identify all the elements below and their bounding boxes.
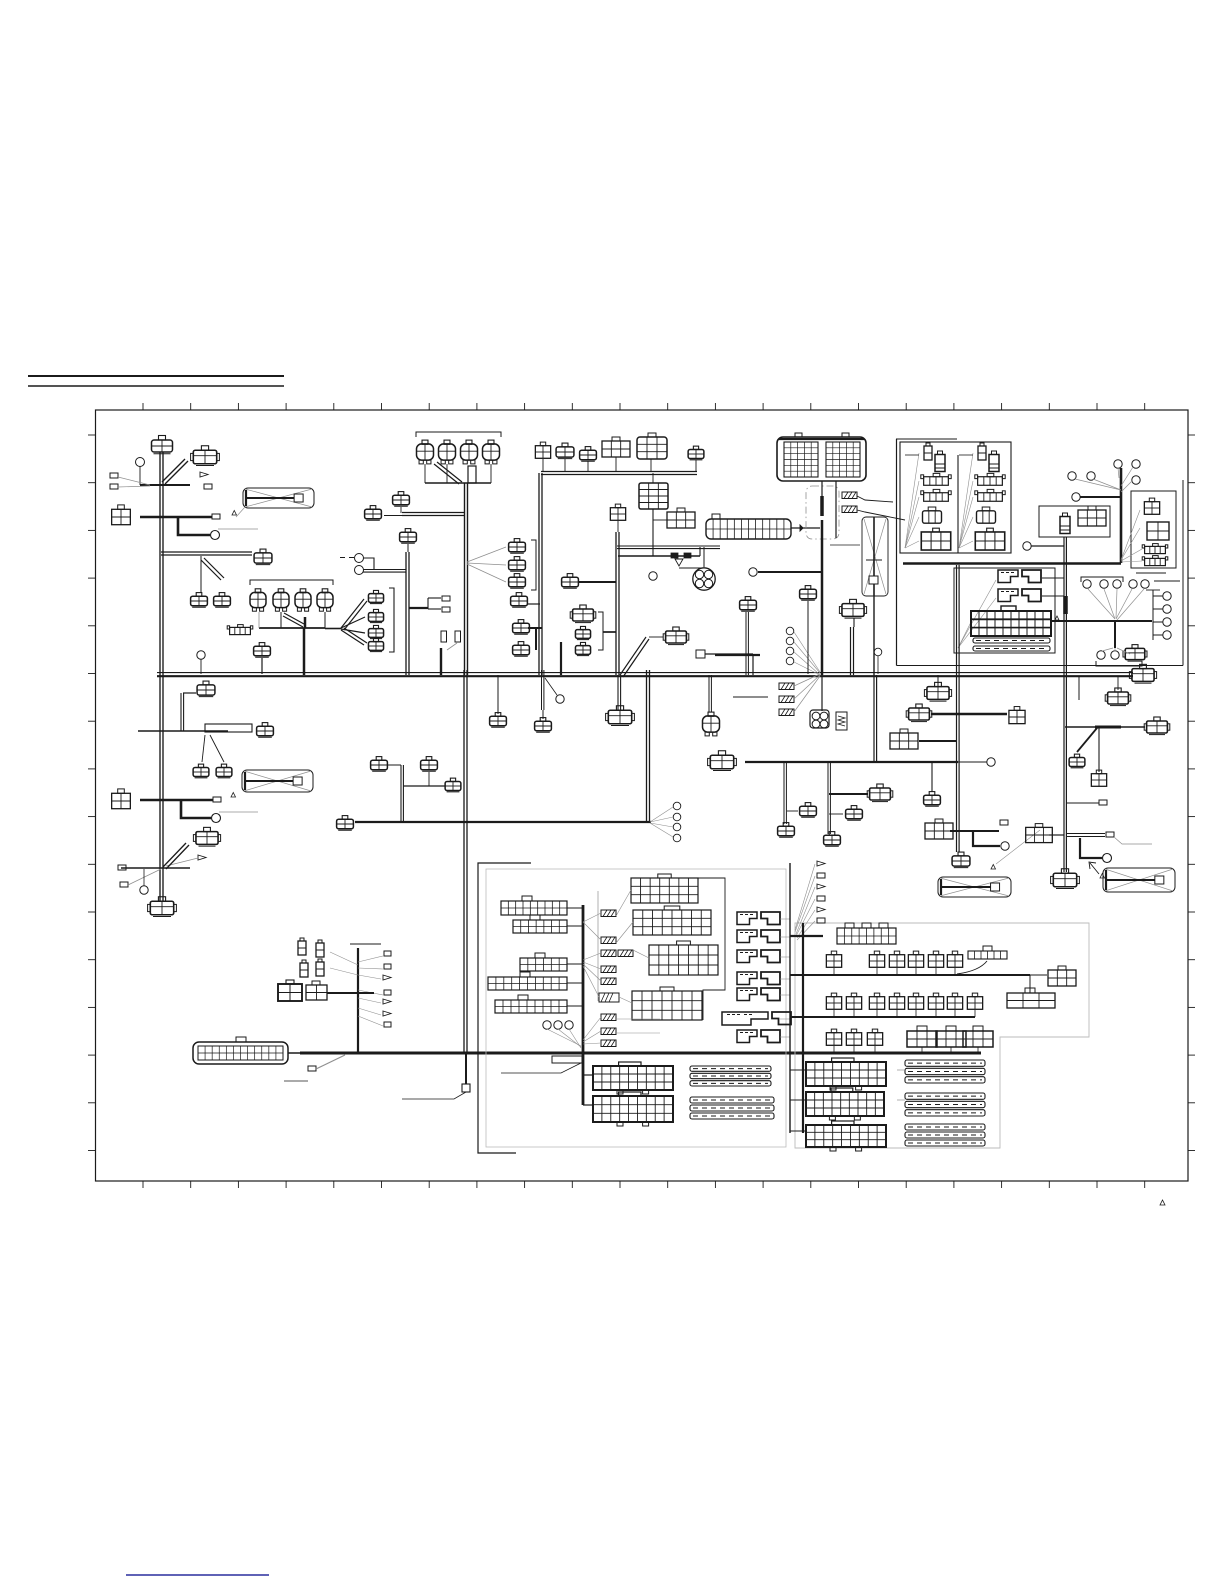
terminal rect PR6 [817,918,825,923]
fan diagonal 3 [341,629,365,633]
box2 fans [958,580,996,648]
grid block GB3 [520,953,567,971]
connector C27 [602,437,630,457]
connector row R2 [826,993,982,1017]
jog v427 [427,598,429,609]
connector C74 [445,778,461,792]
cluster top line [1136,572,1166,574]
terminal rect PR2 [817,873,825,878]
stem J1 [424,464,426,483]
wire vert [181,693,184,731]
big grid BG1 [971,606,1051,636]
splice circle S13 [987,758,995,766]
noise filter NF1 [810,710,829,728]
connector C2 [191,446,220,466]
resistor box WW [836,712,847,730]
bracket over injector group [250,580,333,585]
connector row R1 [826,951,962,975]
connector C53 [846,806,863,821]
cluster frame wire [695,878,725,1020]
fan diagonal 4 [341,628,367,645]
terminal rect T6 [118,865,126,870]
terminal rect LL1 [384,951,391,956]
drop wire x543 [542,670,544,710]
drop x785 [784,762,786,824]
wire y553 [161,552,252,555]
stub x1079 [1078,677,1080,700]
connector C24 [535,442,550,458]
branch diagonal to C2 [162,459,188,484]
border frame [96,410,1189,1181]
connector C64 [1144,717,1170,735]
connector C47 [740,597,757,612]
connector C48 [708,751,737,771]
leader gray diag [316,1055,345,1069]
grid block GB1 [501,896,567,915]
connector C28 large [637,437,667,459]
striped block S4 [690,1066,771,1086]
elbow bold [973,831,1000,846]
pointer arrow LL6 [383,1011,391,1016]
wedge [800,525,803,531]
splice circle S3 [212,814,221,823]
connector C8 [254,643,271,658]
relay box X1 [243,488,314,508]
connector C37 [1144,498,1159,514]
hub bus y621 [1051,620,1152,622]
leader fan LL [330,952,383,1026]
stem down [652,509,654,556]
terminal rect T2 [110,473,118,478]
connector C32 [562,574,579,589]
end fans [650,807,673,837]
GB link 1 [567,907,583,909]
splice circles hub [1083,580,1149,588]
ECU block E2 [806,1088,884,1120]
X3 trunk [873,596,875,675]
connector C46 [800,586,817,601]
connector C28 tab [648,433,656,437]
lower-left trunk [357,948,359,1053]
connector C23 [513,642,530,657]
bracket trio [531,540,536,590]
leader x466 [402,1092,466,1099]
lower-right box gray [795,923,1089,1148]
dash stub [340,557,354,559]
stem [615,457,617,471]
ring terminal circle [136,458,145,467]
grid block GB5 [495,995,567,1013]
leader A3 [996,830,1040,864]
GB link 4 [567,982,583,984]
connector C6 [214,593,231,608]
pointer arrow PR3 [817,884,825,889]
connector C33 [570,605,596,623]
connector C30 grid6 [667,508,695,528]
top feed wire [541,472,697,475]
trunk x407 [406,552,409,675]
pair connectors P1 [298,938,324,957]
pair connectors P2 [300,959,324,977]
leader to T3 [118,486,150,487]
connector C35 [575,642,590,655]
elbow bold right [1080,838,1102,858]
drop wire x620 [618,675,621,710]
leader gray [218,528,258,530]
injector connector J7 [295,589,311,611]
bus y727 tail [1121,726,1145,728]
splice circle S9 [874,648,882,656]
right col rail [1153,590,1163,640]
fan wire y629 [325,628,341,630]
diag to C12 [210,735,224,762]
stem [542,459,544,471]
bold tick 1 [671,553,678,558]
hatched H5 [779,709,794,716]
drop wire x498 [497,675,499,714]
wire LC2 to bus [288,1052,300,1054]
bold wire y608 [409,607,428,609]
L-pair LP2 [998,589,1041,602]
circle trio [543,1021,573,1029]
hatch fans L [583,913,601,1044]
splice circle S14 [355,554,364,563]
connector C67 [1129,664,1156,683]
enclosing box bottom edge [897,665,1184,667]
fuse cluster FC4 [632,987,702,1020]
wire y628 bold [528,627,542,629]
connector C22 [513,620,530,635]
connector C69 grid bold [278,980,302,1001]
splice diagonal x545 [545,678,557,695]
splice circle S8 [556,695,564,703]
thin wire [830,544,860,546]
box3 outline [1039,506,1110,537]
long connector LC2 [193,1037,288,1064]
connector C38 [1147,522,1169,540]
wire y993 bold [327,992,374,994]
drop x958 [957,565,960,852]
second bus left [355,821,651,823]
bold stub inj [468,466,476,483]
mid-right bus thin tail [958,761,987,763]
connector C61 [1051,869,1080,889]
stem [617,521,619,532]
injector merge wire [425,482,491,484]
GB link 5 [567,1005,583,1007]
junction diagonal [620,637,649,677]
connector C1 top of left trunk [152,436,173,454]
connector C52 [867,784,893,802]
hatched fuse column [599,910,633,1047]
connector C65 [1069,754,1085,768]
connector C40 [1142,556,1168,566]
leader gray 2 [219,811,258,813]
cross wire y485 [140,484,190,486]
ring terminal stem [139,466,141,485]
coil dashdot outline [806,486,839,539]
diag to C11 [202,735,205,762]
injector connector J5 [250,589,266,611]
bracket over injectors [416,432,501,437]
lower-left box gray [486,869,786,1147]
connector C79 [368,590,383,603]
stem C17 [407,544,409,552]
connector C54 [924,792,941,807]
box1 top stub [896,438,957,440]
bus y517 [140,516,212,518]
connector C70 grid [306,981,327,1000]
connector C56 [924,682,951,701]
wire y731 [138,730,228,732]
ECU block E3 [806,1121,886,1151]
revision triangle [1160,1200,1165,1205]
connector C81 [368,625,383,638]
row bus y975 [790,974,1030,976]
connector C9 [197,681,215,697]
splice circle S6 [1072,493,1080,501]
drop x932 [931,762,933,792]
relay box X2 [242,770,313,792]
leader sleeve [501,1063,581,1073]
pointer arrow PR1 [817,861,825,866]
splice circle S2 [197,651,205,659]
wire x877 lower [874,675,877,762]
wire from S14 [363,558,374,569]
stem S9 [877,656,879,674]
leader arrow2 [166,858,198,866]
connector C43 [535,718,552,733]
arrow up-left [1089,862,1099,874]
footer rule blue [126,1574,269,1576]
leader T7 [128,869,161,885]
bus y727 bold [1095,726,1121,729]
fuse diag [447,643,457,650]
bold elbow wire [178,518,210,535]
hatched H3 [779,683,794,690]
wire trio to trunk [603,631,616,633]
rail stubs [790,1070,905,1131]
wire y831 [950,830,999,832]
stem [587,461,589,471]
connector C49 [778,823,795,838]
drop diagonal [201,558,224,580]
wire y945 [350,943,381,945]
striped block S3 [905,1124,985,1146]
note triangle A4 [1100,874,1105,879]
fuse cluster FC2 [633,906,711,935]
leader to X1 [236,507,245,517]
inner trunk [582,905,585,1105]
drop trunk x648 [647,670,650,822]
bracket top [1081,577,1123,582]
note triangle A5 [1055,616,1059,620]
bold stub x441 [440,648,442,675]
left rail bold [802,923,804,1133]
terminal rect y803 [1099,800,1107,805]
lpair leaders [780,919,790,1037]
drop x402 [401,765,403,822]
terminal rect T3 [110,484,118,489]
splice circles NE [1068,460,1140,484]
connector C41 [1123,645,1147,662]
bold tick 2 [684,553,691,558]
connector C78 [365,506,382,521]
wire LC1 to coil [791,527,820,529]
striped row SR1 [973,638,1050,643]
injector diagonal [283,613,304,627]
connector C20 [509,574,526,589]
stem C73 [428,772,430,786]
connector C34 [575,626,590,639]
wire y604 [528,603,540,605]
wire y835 [1049,834,1064,836]
wire y590 [1146,589,1160,591]
bus y727 [1065,726,1097,728]
title rule lower [28,385,284,387]
pigtail arrow [200,472,208,477]
wire y794 [829,793,868,795]
ECU block E4 [593,1062,673,1094]
connector C36 grid6 [1078,506,1106,526]
box1 mid rail [957,455,959,553]
wire y581 [1154,580,1180,582]
injector stem 2 [280,612,282,628]
dark stub [560,642,562,675]
note triangle A3 [991,865,996,870]
connector C50 [800,803,817,818]
left rail dark [789,863,791,1133]
connector C31 grid4 [610,504,625,520]
pigtail arrow 2 [198,855,206,860]
connector C13 grid [112,789,131,809]
link wire [653,519,667,521]
bold stub y936 [790,935,823,937]
diag bold to C14 [163,843,189,869]
striped block S2 [905,1093,985,1116]
bracket col x392 [389,588,394,652]
drop x1030 [1029,975,1031,993]
lower main bus [300,1052,981,1055]
connector C44 [606,706,635,726]
left trunk wire [160,452,163,901]
wire from S15 [363,570,406,573]
connector C25 [556,443,574,459]
bus y713 [931,713,1007,715]
wire to T9 [428,608,441,610]
brick connector B1 [639,483,668,509]
pointer arrow LL3 [383,975,391,980]
mid trunk x465 upper [464,670,467,822]
coil bold segment 2 [821,520,824,545]
connector C59 grid6 [890,729,918,749]
ring terminal circle S4 [140,886,148,894]
stem wheel [703,547,705,567]
hub drop [1114,621,1116,648]
injector stem 3 [324,612,326,628]
bus y556 [618,555,700,557]
wire y814 [829,813,843,815]
sleeve under bus [552,1056,582,1063]
splice circle S11 [1001,842,1009,850]
wire S7 [1031,545,1064,547]
drop x465 below bus [465,1053,467,1084]
injector connector J6 [273,589,289,611]
wire y654 [705,653,753,655]
mid drop trunk x465 [464,822,467,1053]
splice circle S7 [1023,542,1031,550]
wire to C75 [1030,974,1047,976]
connector C12 [216,764,232,778]
connector C17 [400,529,417,544]
connector C76 grid6 [1007,988,1055,1008]
fan diagonal 2 [341,617,365,628]
drop x829 [828,762,830,834]
injector connector J2 [439,440,456,464]
hatched H4 [779,696,794,703]
wire to T8 [428,597,441,599]
wire C78 [384,515,402,517]
wire y655 bold [715,654,760,656]
box1 leader fans [905,453,973,548]
fan wire 1 [467,547,506,562]
connector C77 [663,627,689,645]
terminal rect T5 [213,797,221,802]
title rule upper [28,375,284,377]
splice circle S10 [749,568,757,576]
LC1 tab [712,514,720,519]
box1 outline [900,442,1011,553]
end circles x676 [673,802,681,842]
fuse rect F1 [441,631,447,642]
injector merge wire [259,627,325,629]
injector stem 1 [258,612,260,628]
terminal rect T9 [442,607,450,612]
hatched resistor H2 [842,506,857,513]
ECU block E1 [806,1058,886,1090]
wire to C77 [649,636,663,638]
ECU feeds [583,1075,593,1105]
wire y811 [787,810,798,812]
connector C5 [191,593,208,608]
bracket under [1096,661,1142,666]
funnel [675,559,683,566]
wire y572 [758,571,822,573]
terminal sq [696,650,705,658]
injector connector J8 [317,589,333,611]
inj diagonal [434,462,462,484]
stem S2 [200,659,202,674]
wire y568 [679,567,703,569]
terminal rect T8 [442,596,450,601]
terminal rect LL7 [384,1022,391,1027]
connector C73 [421,757,438,772]
connector C71 [337,816,354,831]
fuse cluster FC1 [631,874,698,903]
trunk x617 [616,532,619,675]
connector C26 [580,447,597,462]
fan diagonal 1 [341,599,367,630]
pointer leaders [795,864,815,940]
enclosing box left edge [896,439,898,666]
long connector LC1 [706,519,791,539]
stem J4 [490,464,492,483]
wire from H1 [857,496,893,502]
big twin-grid connector TG1 [777,433,866,481]
pointer arrow PR5 [817,907,825,912]
connector C72 [371,757,388,772]
stem C68 [1117,676,1119,690]
